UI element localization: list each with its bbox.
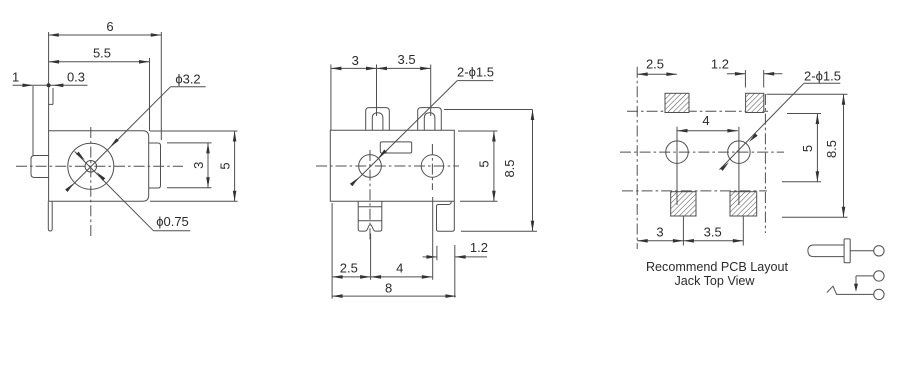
barrel on right (149, 143, 161, 188)
svg-text:8.5: 8.5 (824, 140, 839, 158)
dim 6 right extension (160, 32, 162, 140)
dim 4 line (677, 130, 738, 132)
pin cross line 2 (358, 220, 382, 222)
dim 8.5 line (843, 94, 845, 217)
svg-text:8.5: 8.5 (502, 159, 517, 177)
front wall step 0.3 (52, 88, 54, 104)
pad top-left (665, 93, 689, 112)
leader 2-phi1.5 underline (457, 80, 493, 82)
centerline top pads row (627, 110, 768, 112)
dim 5 line (234, 131, 236, 201)
right top tab (418, 108, 442, 131)
dim 8.5 extensions (444, 109, 533, 111)
dim 5 extensions (150, 130, 238, 132)
leader phi3.2 underline (171, 86, 206, 88)
switch bottom line (836, 293, 874, 295)
dim 5 right line (493, 131, 495, 201)
mount tab below body (48, 201, 52, 231)
bottom pin with notch (358, 201, 382, 231)
switch lever (827, 286, 837, 294)
leader phi3.2 diagonal (67, 87, 171, 191)
svg-text:Recommend PCB Layout: Recommend PCB Layout (646, 260, 789, 274)
switch arrow (854, 284, 858, 292)
switch bottom terminal (874, 289, 884, 299)
dim 2.5 / 4 bottom line (332, 276, 432, 278)
pad bottom-left (671, 192, 696, 216)
hole right (728, 141, 751, 164)
svg-text:ϕ3.2: ϕ3.2 (175, 72, 200, 87)
dim bottom extensions (331, 203, 333, 299)
svg-text:1.2: 1.2 (711, 57, 729, 72)
vertical centerline (90, 127, 92, 237)
svg-text:5.5: 5.5 (93, 46, 111, 61)
hole-pad connector line left (676, 127, 678, 205)
plug terminal circle (874, 246, 884, 256)
svg-text:2-ϕ1.5: 2-ϕ1.5 (457, 65, 494, 80)
dim 5.5 right extension (149, 58, 151, 131)
svg-text:3: 3 (352, 53, 359, 68)
right tab inner arch (424, 113, 435, 131)
dim 5 right extensions (458, 130, 498, 132)
left tab inner arch (372, 113, 383, 131)
svg-text:2.5: 2.5 (646, 57, 664, 72)
leader phi0.75 diagonal (75, 152, 154, 231)
extension pad4 center (742, 216, 744, 246)
plug symbol crossbar (844, 239, 850, 263)
vertical centerline right circle (431, 144, 433, 190)
dim extensions top (330, 65, 332, 131)
switch drop line (855, 276, 857, 284)
centerline middle (620, 151, 784, 153)
front wall step jog (49, 103, 53, 105)
svg-text:3: 3 (191, 162, 206, 169)
dim 1.2 extensions (744, 70, 746, 88)
pin cross line 1 (358, 206, 382, 208)
vertical centerline left circle (369, 150, 371, 242)
big circle phi3.2 (68, 143, 114, 189)
right hook (437, 201, 455, 231)
flange front edge line (32, 86, 34, 156)
dim 3 line (207, 143, 209, 188)
dim 1.2 top lines (727, 73, 746, 75)
dim 2.5 top line (637, 73, 677, 75)
dim 6 top (48, 34, 161, 36)
svg-text:4: 4 (702, 113, 709, 128)
centerline bottom pads row (622, 190, 767, 192)
pcb outline right dashed (764, 94, 766, 233)
pcb outline left dashed (636, 67, 638, 249)
dim 5.5 (49, 61, 150, 63)
svg-text:ϕ0.75: ϕ0.75 (156, 214, 189, 229)
horizontal centerline (16, 165, 183, 167)
svg-text:Jack Top View: Jack Top View (674, 274, 755, 288)
hole circle right (421, 155, 443, 177)
pad top-right (746, 93, 764, 112)
svg-text:3.5: 3.5 (398, 52, 416, 67)
hole circle left (359, 155, 382, 178)
svg-text:5: 5 (800, 145, 815, 152)
svg-text:0.3: 0.3 (67, 70, 85, 85)
dim 8 bottom line (332, 295, 456, 297)
hole-pad connector line right (738, 127, 740, 205)
dim 3 / 3.5 bottom line (637, 240, 743, 242)
svg-text:1.2: 1.2 (470, 240, 488, 255)
slot rectangle (380, 142, 411, 153)
dim 5 right extensions (787, 113, 821, 115)
leader underline (804, 82, 840, 84)
center pin nub (31, 156, 49, 178)
plug symbol lead (850, 250, 874, 252)
dim 5 right line (816, 114, 818, 182)
left top tab (366, 108, 390, 131)
leader 2-phi1.5 diagonal (353, 81, 458, 185)
dim 1.2 extensions (436, 246, 438, 260)
dim 3 extensions right of barrel (167, 142, 212, 144)
svg-text:6: 6 (106, 19, 113, 34)
switch top lead (856, 275, 874, 277)
svg-text:3.5: 3.5 (704, 224, 722, 239)
jack body outline (49, 131, 149, 202)
svg-text:2-ϕ1.5: 2-ϕ1.5 (804, 69, 841, 84)
dim 3 / 3.5 top line (331, 67, 431, 69)
dim 8.5 line (532, 110, 534, 232)
dim 6 left extension (48, 32, 50, 85)
dim dot (47, 83, 51, 87)
switch top terminal (874, 271, 884, 281)
body left edge extension line (48, 85, 50, 201)
svg-text:5: 5 (477, 160, 492, 167)
leader diagonal (720, 83, 804, 169)
svg-text:4: 4 (396, 260, 403, 275)
dim 1.2 hook lines (423, 256, 437, 258)
leader phi0.75 underline (153, 230, 190, 232)
extension pad3 center (682, 216, 684, 246)
hole left (666, 141, 689, 164)
dim 8.5 extensions (767, 93, 848, 95)
svg-text:5: 5 (218, 162, 233, 169)
svg-text:1: 1 (12, 70, 19, 85)
svg-text:3: 3 (656, 224, 663, 239)
pad bottom-right (730, 192, 757, 216)
svg-text:2.5: 2.5 (340, 261, 358, 276)
dim 1 and 0.3 line (13, 84, 88, 86)
plug symbol barrel (808, 245, 844, 257)
svg-text:8: 8 (385, 280, 392, 295)
small circle phi0.75 (85, 161, 97, 173)
horizontal centerline (316, 165, 459, 167)
middle view: jack front outline (330, 130, 454, 201)
